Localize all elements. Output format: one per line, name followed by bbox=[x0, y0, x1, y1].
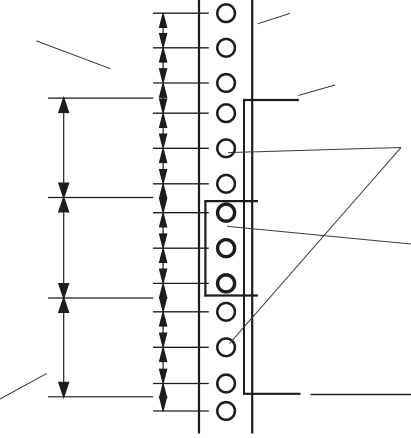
dimension arrowhead down (tip at tick T9) bbox=[160, 269, 167, 283]
hole spacing dimension segment D3 (shaft) bbox=[162, 84, 164, 112]
mounting hole H7 (bold, inside 1U box) bbox=[218, 204, 235, 221]
dimension arrowhead up (tip at tick T10) bbox=[160, 312, 167, 326]
dimension arrowhead down (tip at tick T5) bbox=[160, 134, 167, 148]
dimension arrowhead down (tip at tick T8) bbox=[160, 234, 167, 248]
hole centerline tick T6 bbox=[153, 183, 209, 185]
dimension arrowhead up (tip at tick T7) bbox=[160, 213, 167, 227]
leader line from apex to hole H11 bbox=[230, 148, 402, 344]
dimension arrowhead up (tip at tick T3) bbox=[160, 83, 167, 97]
mounting hole H11 bbox=[217, 339, 235, 357]
leader line at top right bbox=[258, 13, 291, 23]
dimension arrowhead up (tip at tick T4) bbox=[160, 114, 167, 128]
rack unit dimension segment U2 (shaft) bbox=[63, 199, 65, 298]
mounting hole H1 bbox=[217, 4, 235, 22]
dimension arrowhead down (tip at tick T3) bbox=[160, 69, 167, 83]
rack rail right edge bbox=[251, 0, 253, 434]
hole centerline tick T11 bbox=[153, 346, 209, 348]
hole centerline tick T12 bbox=[153, 383, 209, 385]
U-boundary extension line E1 bbox=[48, 97, 153, 99]
hole centerline tick T5 bbox=[153, 147, 209, 149]
mounting hole H2 bbox=[217, 39, 235, 57]
mounting hole H13 bbox=[217, 402, 235, 420]
hole centerline tick T4 bbox=[153, 112, 209, 114]
leader line to rail (top left) bbox=[36, 41, 110, 69]
mounting hole H9 (bold, inside 1U box) bbox=[218, 275, 235, 292]
rack unit dimension arrowhead up (tip at E3) bbox=[59, 298, 68, 312]
dimension arrowhead down (tip at tick T2) bbox=[160, 34, 167, 48]
span bracket top stub bbox=[243, 99, 299, 101]
dimension arrowhead down (tip at tick T4) bbox=[160, 99, 167, 113]
mounting hole H8 (bold, inside 1U box) bbox=[218, 240, 235, 257]
hole spacing dimension segment D11 (shaft) bbox=[162, 348, 164, 382]
dimension arrowhead up (tip at tick T8) bbox=[160, 249, 167, 263]
span bracket bottom stub bbox=[243, 393, 301, 395]
dimension arrowhead up (tip at tick T1) bbox=[160, 14, 167, 28]
U-boundary extension line E3 bbox=[48, 297, 153, 299]
hole centerline tick T3 bbox=[153, 82, 209, 84]
dimension arrowhead up (tip at tick T11) bbox=[160, 348, 167, 362]
hole spacing dimension segment D7 (shaft) bbox=[162, 214, 164, 248]
hole centerline tick T10 bbox=[153, 311, 209, 313]
hole spacing dimension segment D6 (shaft) bbox=[162, 185, 164, 212]
span bracket vertical bbox=[243, 100, 245, 394]
dimension arrowhead up (tip at tick T9) bbox=[160, 284, 167, 298]
1U box top edge bbox=[204, 200, 258, 202]
1U box left edge bbox=[204, 200, 206, 297]
rack unit dimension arrowhead down (tip at E4) bbox=[59, 383, 68, 397]
hole centerline tick T2 bbox=[153, 47, 209, 49]
rack unit dimension arrowhead down (tip at E3) bbox=[59, 284, 68, 298]
leader line at bottom right bbox=[311, 394, 411, 396]
hole spacing dimension segment D4 (shaft) bbox=[162, 114, 164, 147]
hole spacing dimension segment D9 (shaft) bbox=[162, 284, 164, 310]
dimension arrowhead down (tip at tick T10) bbox=[160, 298, 167, 312]
leader line from 1U box to right edge bbox=[227, 226, 411, 244]
dimension arrowhead up (tip at tick T5) bbox=[160, 149, 167, 163]
leader line to bracket top bbox=[298, 85, 335, 96]
rack rail left edge bbox=[198, 0, 200, 434]
mounting hole H12 bbox=[217, 375, 235, 393]
dimension arrowhead down (tip at tick T7) bbox=[160, 199, 167, 213]
U-boundary extension line E2 bbox=[48, 197, 153, 199]
hole centerline tick T7 bbox=[153, 212, 209, 214]
dimension arrowhead up (tip at tick T6) bbox=[160, 184, 167, 198]
1U box bottom edge bbox=[204, 294, 258, 296]
mounting hole H10 bbox=[217, 303, 235, 321]
hole centerline tick T1 bbox=[153, 12, 209, 14]
hole spacing dimension segment D5 (shaft) bbox=[162, 149, 164, 183]
hole centerline tick T13 bbox=[153, 410, 209, 412]
U-boundary extension line E4 bbox=[48, 396, 153, 398]
dimension arrowhead down (tip at tick T12) bbox=[160, 369, 167, 383]
rack unit dimension arrowhead up (tip at E2) bbox=[59, 198, 68, 212]
rack unit dimension segment U3 (shaft) bbox=[63, 299, 65, 396]
hole spacing dimension segment D1 (shaft) bbox=[162, 14, 164, 47]
rack unit dimension arrowhead down (tip at E2) bbox=[59, 183, 68, 197]
hole spacing dimension segment D12 (shaft) bbox=[162, 385, 164, 411]
dimension arrowhead down (tip at tick T6) bbox=[160, 170, 167, 184]
mounting hole H6 bbox=[217, 175, 235, 193]
rack unit dimension arrowhead up (tip at E1) bbox=[59, 99, 68, 113]
mounting hole H5 bbox=[217, 140, 235, 158]
dimension arrowhead down (tip at tick T11) bbox=[160, 333, 167, 347]
hole spacing dimension segment D10 (shaft) bbox=[162, 313, 164, 347]
dimension arrowhead down (tip at tick T13) bbox=[160, 397, 167, 411]
rack unit dimension segment U1 (shaft) bbox=[63, 99, 65, 196]
mounting hole H3 bbox=[217, 74, 235, 92]
mounting hole H4 bbox=[217, 104, 235, 122]
dimension arrowhead up (tip at tick T12) bbox=[160, 384, 167, 398]
hole spacing dimension segment D2 (shaft) bbox=[162, 49, 164, 82]
hole spacing dimension segment D8 (shaft) bbox=[162, 249, 164, 282]
dimension arrowhead up (tip at tick T2) bbox=[160, 48, 167, 62]
leader line at bottom left bbox=[0, 373, 47, 399]
leader line from hole H5 to apex bbox=[228, 148, 401, 153]
hole centerline tick T8 bbox=[153, 247, 209, 249]
hole centerline tick T9 bbox=[153, 282, 209, 284]
